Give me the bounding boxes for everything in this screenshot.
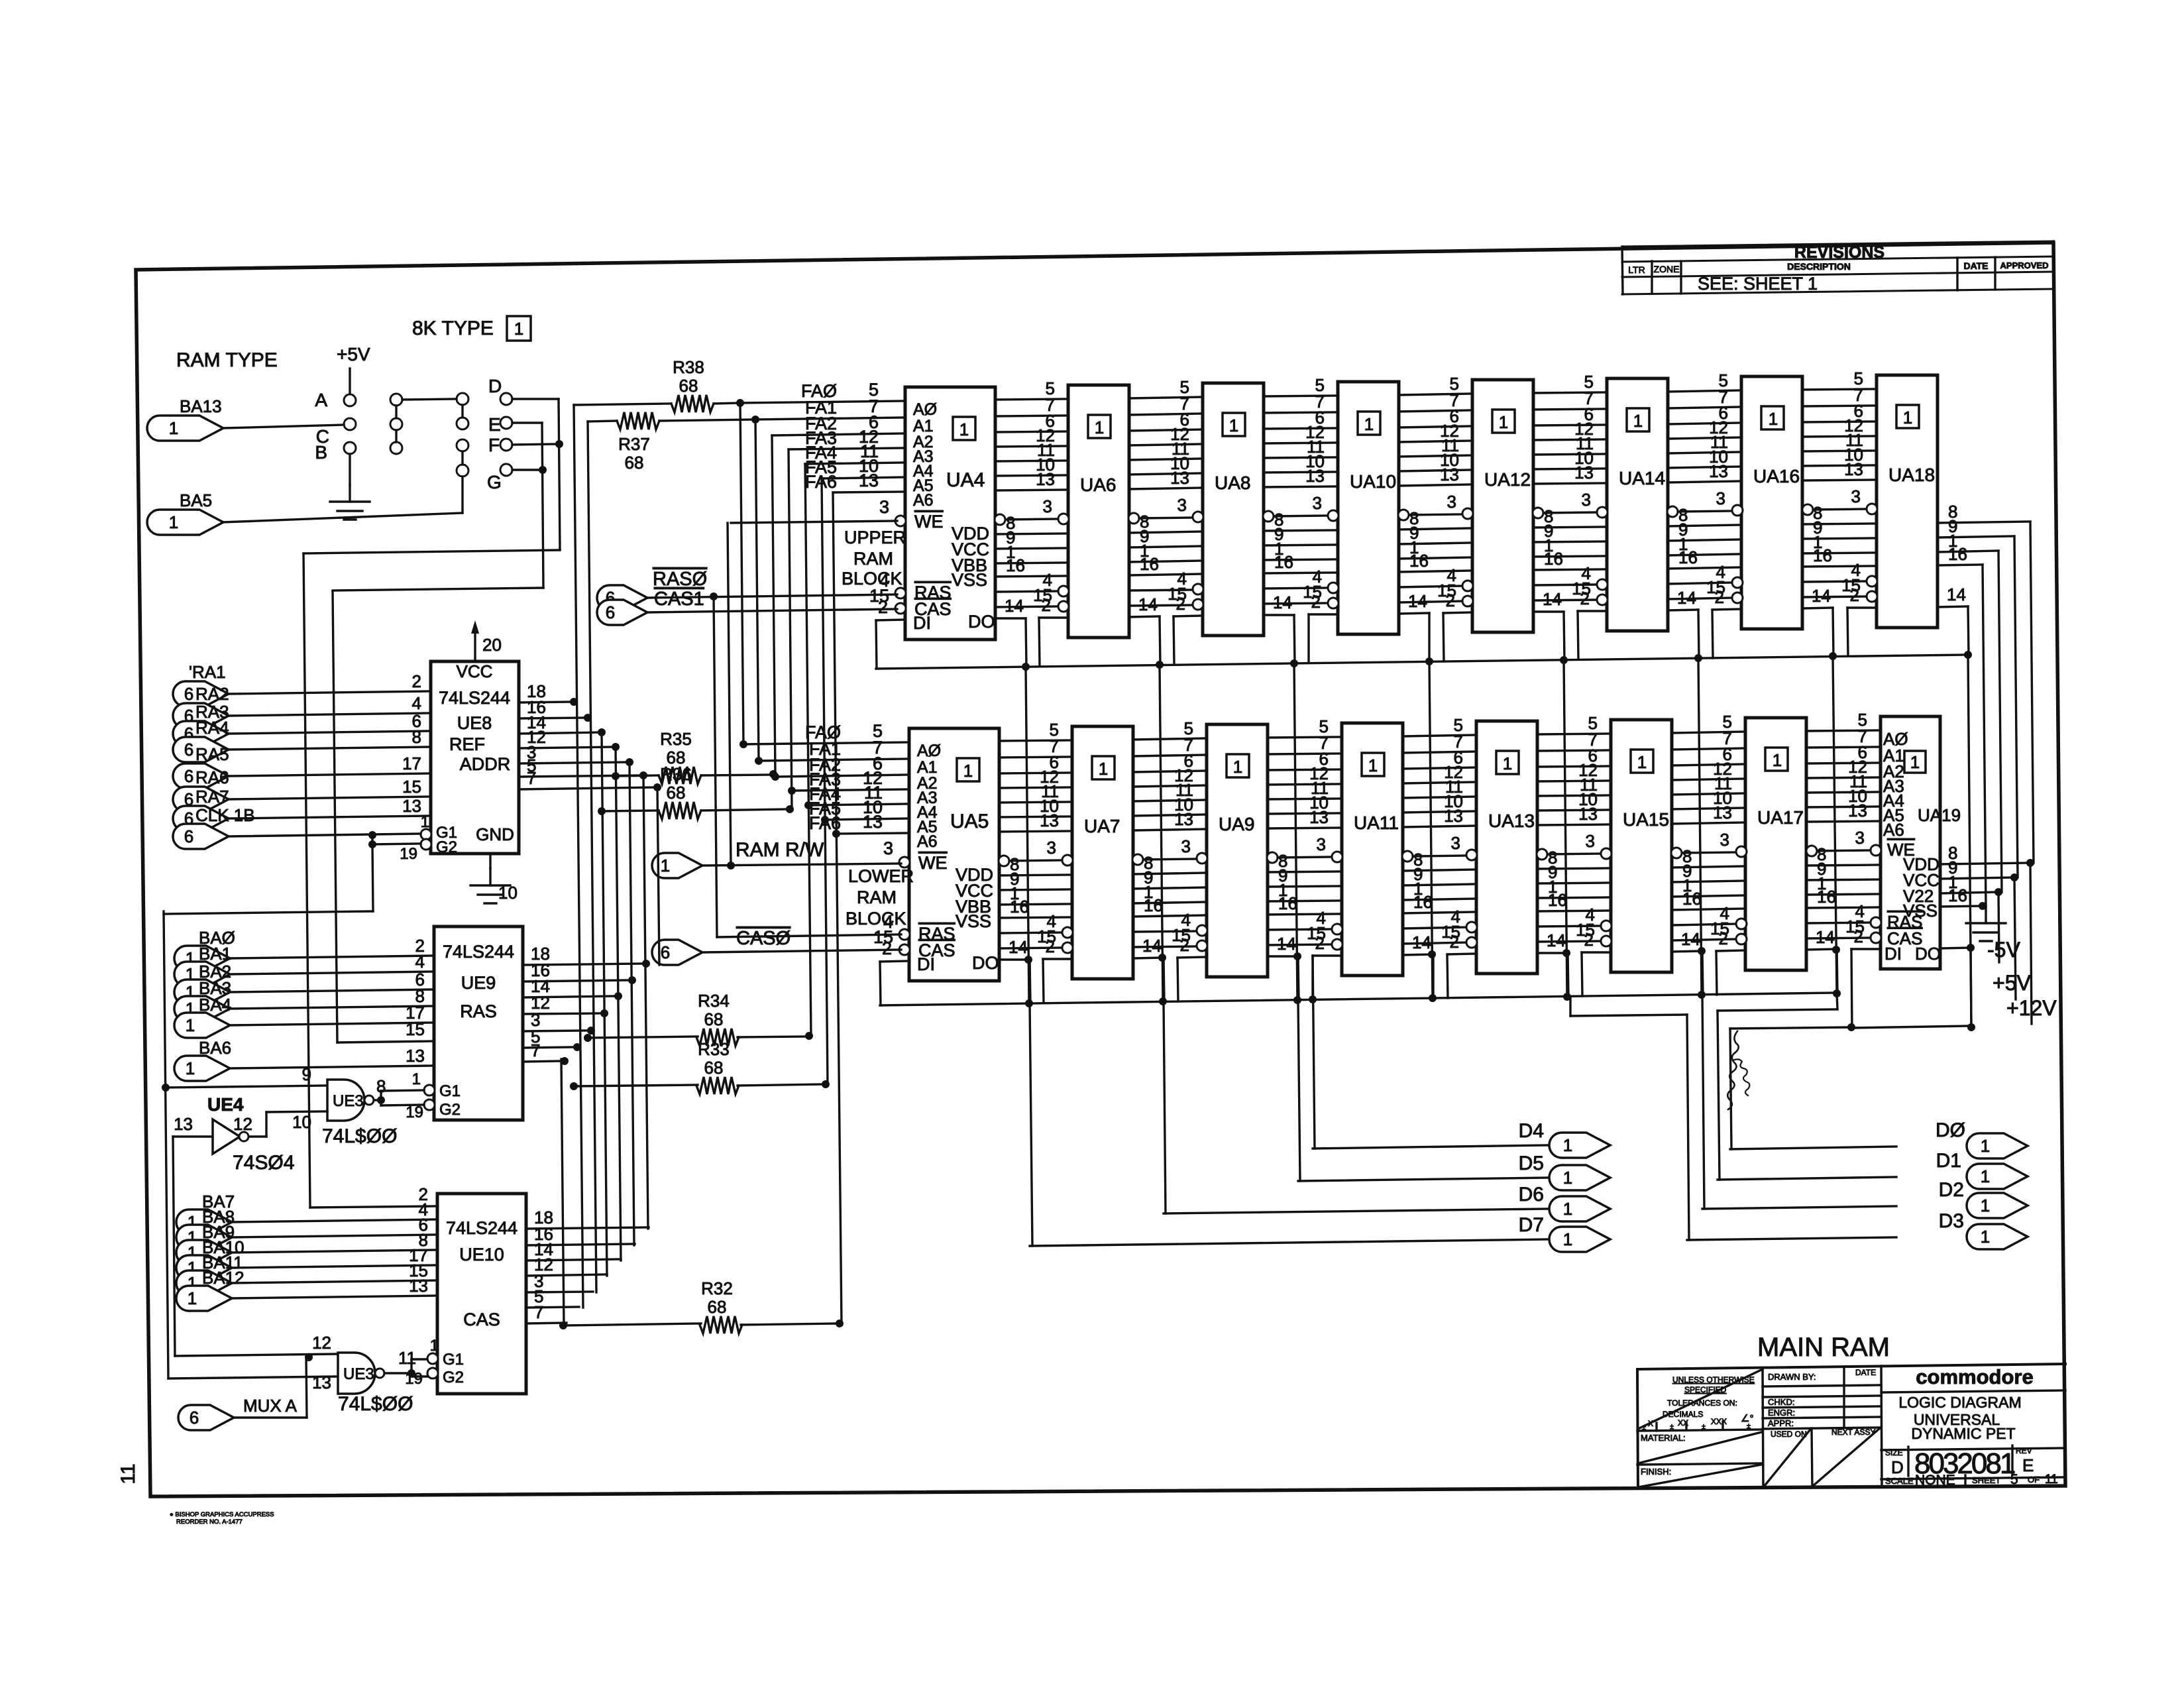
svg-text:2: 2: [1176, 594, 1185, 614]
svg-text:±: ±: [1702, 1423, 1706, 1431]
DO wire UA13: [1537, 952, 1568, 954]
svg-text:13: 13: [1709, 461, 1728, 481]
svg-text:8: 8: [412, 727, 421, 747]
svg-text:2: 2: [882, 938, 892, 958]
RAM chip UA5: [909, 728, 999, 981]
svg-text:G: G: [487, 472, 502, 492]
svg-text:UA14: UA14: [1619, 468, 1665, 488]
svg-text:±: ±: [1642, 1424, 1646, 1432]
jumper column 2 pads: [390, 394, 402, 406]
wires UA13-UA15 address/power rows: [1537, 734, 1611, 734]
svg-text:UA9: UA9: [1219, 814, 1254, 834]
svg-text:DRAWN BY:: DRAWN BY:: [1768, 1372, 1816, 1382]
wires UA11-UA13 address/power rows: [1403, 735, 1476, 736]
RAM chip UA18: [1877, 375, 1938, 628]
svg-text:BA1: BA1: [199, 944, 231, 964]
svg-text:7: 7: [527, 768, 536, 788]
svg-text:NEXT ASSY: NEXT ASSY: [1831, 1428, 1875, 1437]
DI loop wire UA4: [876, 620, 905, 620]
svg-text:CASØ: CASØ: [736, 928, 791, 949]
svg-text:BA4: BA4: [199, 995, 231, 1015]
svg-text:CAS: CAS: [463, 1310, 500, 1329]
DO wire UA15: [1672, 951, 1702, 952]
flag RA2: [173, 703, 229, 728]
svg-text:16: 16: [1413, 892, 1433, 912]
svg-text:1: 1: [1903, 408, 1912, 427]
svg-text:A6: A6: [1883, 820, 1904, 840]
svg-text:±: ±: [1747, 1422, 1751, 1430]
buffer interconnect verticals: [574, 405, 583, 1308]
svg-text:68: 68: [667, 783, 686, 803]
svg-text:UE8: UE8: [457, 713, 492, 733]
svg-text:13: 13: [409, 1276, 428, 1296]
svg-text:1: 1: [1099, 759, 1108, 779]
svg-text:BA13: BA13: [180, 396, 222, 416]
flag BA12: [176, 1286, 232, 1311]
flag BA3: [174, 996, 230, 1021]
D3 route from column UA12/UA13: [1569, 997, 1571, 1016]
data column verticals upper->lower: [1026, 667, 1029, 1003]
svg-text:D7: D7: [1519, 1214, 1544, 1236]
RAM chip UA4: [905, 387, 995, 640]
svg-text:'RA1: 'RA1: [189, 662, 226, 682]
svg-text:1: 1: [1769, 409, 1778, 429]
NAND gate UE3b (74LS00) at UE10 enables: [338, 1353, 375, 1394]
svg-text:2: 2: [1580, 589, 1590, 608]
D5 line from column UA8/UA9: [1298, 1000, 1300, 1181]
svg-text:UA7: UA7: [1084, 816, 1120, 836]
svg-text:2: 2: [1180, 935, 1189, 955]
svg-text:16: 16: [1548, 890, 1567, 910]
DI loop wire UA7: [1043, 958, 1072, 960]
svg-text:±: ±: [1670, 1423, 1674, 1431]
svg-text:R35: R35: [660, 729, 692, 749]
svg-text:DO: DO: [968, 612, 995, 632]
svg-text:REF: REF: [449, 734, 485, 754]
flag D6: [1549, 1196, 1610, 1221]
UE9 G1 G2 bubbles: [424, 1085, 435, 1096]
svg-text:SIZE: SIZE: [1885, 1448, 1903, 1457]
svg-text:A: A: [315, 390, 327, 410]
svg-text:14: 14: [1408, 591, 1427, 611]
flag RA6: [173, 787, 229, 812]
svg-text:UA18: UA18: [1888, 465, 1935, 485]
svg-text:1: 1: [959, 420, 969, 439]
RAM chip UA12: [1472, 380, 1533, 632]
UE8 G1 G2 bubbles: [421, 829, 431, 840]
svg-text:13: 13: [1444, 806, 1463, 826]
jumper pad C: [344, 418, 356, 430]
flag D1: [1967, 1164, 2028, 1189]
svg-text:R33: R33: [698, 1039, 730, 1059]
svg-text:+5V: +5V: [337, 344, 370, 365]
lower power row wires UA19 to power verticals: [1940, 863, 2030, 864]
svg-text:6: 6: [184, 684, 193, 704]
svg-text:16: 16: [1409, 551, 1429, 571]
svg-text:G1: G1: [443, 1351, 464, 1369]
svg-text:14: 14: [1142, 936, 1162, 956]
flag D2: [1967, 1193, 2028, 1218]
svg-text:WE: WE: [914, 512, 944, 532]
D2 route from column UA14/UA15: [1702, 995, 1704, 1209]
svg-text:13: 13: [1574, 463, 1594, 482]
wire jumper D/F net to UE10 pin 2: [303, 553, 310, 1208]
flag BA5 wire to jumper column 3 pad G: [147, 510, 223, 535]
wires UA9-UA11 address/power rows: [1268, 737, 1342, 738]
svg-text:1: 1: [1981, 1196, 1990, 1215]
svg-text:UA6: UA6: [1080, 475, 1116, 495]
svg-text:4: 4: [415, 952, 425, 972]
svg-text:F: F: [488, 435, 500, 455]
svg-text:commodore: commodore: [1916, 1365, 2033, 1388]
svg-text:1: 1: [1633, 411, 1643, 431]
RAM chip UA9: [1207, 724, 1268, 977]
svg-text:6: 6: [184, 766, 193, 786]
svg-text:8K TYPE: 8K TYPE: [412, 317, 494, 339]
flag RA4: [173, 737, 229, 762]
DI loop wire UA8: [1174, 616, 1203, 616]
RAM chip UA6: [1068, 385, 1129, 638]
RAM chip UA7: [1072, 726, 1133, 979]
DO wire UA6: [1129, 616, 1160, 617]
svg-text:LOWER: LOWER: [848, 866, 914, 886]
DO wire UA10: [1399, 613, 1429, 614]
svg-text:13: 13: [1848, 801, 1867, 820]
svg-text:UA12: UA12: [1484, 469, 1531, 490]
svg-text:UA11: UA11: [1354, 813, 1399, 833]
flag BA6: [174, 1056, 230, 1081]
svg-text:2: 2: [1046, 936, 1055, 956]
svg-text:2: 2: [1311, 592, 1321, 612]
svg-text:14: 14: [1547, 930, 1566, 950]
branch to NAND UE3a pin 9: [162, 1084, 170, 1092]
svg-text:BA12: BA12: [202, 1268, 245, 1288]
svg-text:AØ: AØ: [913, 400, 937, 419]
inverter UE4 74S04: [213, 1119, 240, 1154]
svg-text:1: 1: [963, 761, 973, 781]
svg-text:13: 13: [863, 812, 883, 832]
svg-text:6: 6: [661, 942, 670, 962]
svg-text:DI: DI: [917, 954, 935, 974]
flag BA0: [174, 946, 230, 971]
svg-text:13: 13: [174, 1114, 193, 1134]
wires UA8-UA10 address/power rows: [1264, 396, 1338, 396]
DO wire UA16: [1802, 608, 1833, 608]
svg-text:ADDR: ADDR: [460, 754, 511, 774]
svg-text:13: 13: [1309, 807, 1329, 827]
svg-text:5: 5: [2010, 1472, 2018, 1487]
flag RA7: [173, 806, 229, 831]
svg-text:14: 14: [1681, 929, 1700, 949]
jumper G wire joining E net: [512, 469, 543, 471]
svg-text:3: 3: [1043, 496, 1052, 516]
flag BA13 wire to pad C: [147, 416, 223, 441]
svg-text:VSS: VSS: [952, 570, 987, 590]
svg-text:RA7: RA7: [195, 787, 229, 807]
revisions table: [1622, 241, 2053, 247]
svg-text:RA4: RA4: [195, 718, 229, 738]
svg-text:68: 68: [704, 1009, 724, 1029]
svg-text:14: 14: [1138, 594, 1158, 614]
svg-text:2: 2: [412, 671, 421, 691]
wires UA5-UA7 address/power rows: [999, 740, 1072, 741]
svg-text:G2: G2: [436, 838, 457, 856]
svg-text:D6: D6: [1519, 1184, 1544, 1206]
svg-text:UE3: UE3: [333, 1092, 364, 1110]
loop bottom wire UA19: [1851, 1026, 1971, 1028]
wires UA10-UA12 address/power rows: [1399, 394, 1472, 395]
type box 1: [507, 316, 531, 341]
svg-text:10: 10: [292, 1112, 311, 1132]
RAM chip UA14: [1607, 378, 1668, 631]
svg-text:2: 2: [1446, 590, 1455, 610]
svg-text:-5V: -5V: [1987, 938, 2020, 962]
flag CLK 1B wire to UE8 G1: [173, 824, 229, 849]
svg-text:11: 11: [398, 1348, 416, 1368]
svg-text:3: 3: [1181, 836, 1191, 856]
svg-text:6: 6: [190, 1408, 199, 1428]
svg-text:R34: R34: [698, 991, 730, 1011]
svg-text:XXX: XXX: [1711, 1417, 1727, 1426]
svg-text:16: 16: [1948, 544, 1967, 564]
svg-text:DATE: DATE: [1855, 1368, 1876, 1377]
svg-text:RAM R/W: RAM R/W: [736, 839, 824, 861]
svg-text:14: 14: [1005, 596, 1024, 616]
DO wire UA18: [1938, 606, 1968, 607]
svg-text:UA19: UA19: [1918, 805, 1961, 825]
svg-text:BA6: BA6: [199, 1038, 231, 1058]
ground symbol at VSS: [1985, 906, 1987, 923]
DI loop wire UA17: [1716, 950, 1745, 951]
svg-text:RA6: RA6: [195, 767, 229, 787]
svg-text:1: 1: [1499, 412, 1508, 432]
svg-text:UE9: UE9: [461, 973, 496, 993]
svg-text:74LS244: 74LS244: [443, 942, 514, 962]
svg-text:DI: DI: [1884, 944, 1902, 964]
svg-text:UA8: UA8: [1215, 473, 1250, 493]
jumper pad A: [344, 394, 356, 406]
resistor R35 68: [616, 775, 659, 776]
svg-text:16: 16: [1278, 893, 1297, 913]
svg-text:D5: D5: [1519, 1152, 1544, 1174]
UE8 pin 10 GND wire and ground: [489, 854, 491, 868]
svg-text:D4: D4: [1519, 1120, 1544, 1142]
svg-text:2: 2: [1584, 930, 1594, 950]
svg-text:16: 16: [1813, 545, 1832, 565]
DO wire UA11: [1403, 954, 1433, 955]
svg-text:DATE: DATE: [1963, 260, 1988, 271]
FA bus verticals FA0-FA6: [740, 403, 743, 744]
flag MUX A: [178, 1405, 234, 1430]
svg-text:11: 11: [2045, 1473, 2058, 1487]
flag RA1: [173, 681, 229, 706]
svg-text:DO: DO: [972, 953, 999, 973]
svg-text:13: 13: [1036, 469, 1055, 489]
svg-text:LOGIC DIAGRAM: LOGIC DIAGRAM: [1898, 1394, 2021, 1411]
svg-text:VSS: VSS: [955, 911, 991, 931]
border frame: [136, 243, 2065, 1496]
svg-text:3: 3: [1720, 830, 1729, 850]
svg-text:20: 20: [482, 635, 502, 655]
svg-text:RA2: RA2: [195, 684, 229, 704]
svg-text:16: 16: [1140, 554, 1159, 574]
svg-text:13: 13: [1578, 804, 1598, 824]
RAM chip UA10: [1338, 382, 1399, 634]
title block outer box: [1637, 1364, 2065, 1369]
flag D3: [1967, 1224, 2028, 1249]
svg-text:1: 1: [1910, 752, 1920, 772]
DO wire UA9: [1268, 955, 1298, 957]
svg-text:13: 13: [1440, 465, 1459, 484]
WE vertical from RAM R/W up to upper WE row: [728, 523, 731, 866]
DO wire UA7: [1133, 958, 1164, 958]
svg-text:4: 4: [412, 693, 421, 713]
svg-text:2: 2: [1854, 927, 1863, 946]
svg-text:3: 3: [1313, 493, 1322, 513]
svg-text:3: 3: [1716, 488, 1725, 508]
svg-text:6: 6: [606, 602, 615, 622]
svg-text:16: 16: [1682, 889, 1702, 909]
jumper pads D E F G: [500, 393, 512, 405]
flag BA8: [176, 1225, 232, 1250]
wires UA7-UA9 address/power rows: [1133, 738, 1207, 740]
power rail ends and labels -5V +5V +12V: [1998, 892, 1999, 962]
svg-text:1: 1: [1095, 418, 1104, 437]
svg-text:BA5: BA5: [180, 490, 212, 510]
DI loop wire UA16: [1712, 609, 1741, 610]
svg-text:D2: D2: [1939, 1179, 1964, 1201]
svg-text:3: 3: [1047, 838, 1056, 858]
svg-text:1: 1: [412, 1070, 421, 1088]
resistor R37 68: [588, 421, 617, 421]
pencil scribble artifact: [1727, 1031, 1739, 1109]
svg-text:1: 1: [1229, 416, 1238, 435]
svg-text:14: 14: [1277, 934, 1296, 954]
svg-text:14: 14: [1273, 592, 1292, 612]
svg-text:DO: DO: [1915, 944, 1941, 964]
gate chain vertical to NAND UE3b: [164, 911, 168, 1378]
svg-text:1: 1: [1368, 756, 1378, 775]
UE10 G1 G2 bubbles: [427, 1353, 438, 1364]
svg-text:BLOCK: BLOCK: [846, 909, 906, 928]
svg-text:A6: A6: [913, 491, 934, 510]
DI loop wire UA10: [1309, 613, 1338, 615]
svg-text:G2: G2: [439, 1101, 461, 1119]
svg-text:2: 2: [878, 597, 888, 617]
svg-text:16: 16: [1274, 552, 1293, 572]
svg-text:+5V: +5V: [1993, 971, 2031, 995]
svg-text:AØ: AØ: [917, 742, 941, 760]
flag BA9: [176, 1240, 232, 1265]
wire between jumper columns 2-3: [402, 399, 457, 400]
svg-text:12: 12: [312, 1333, 331, 1353]
svg-text:D: D: [1891, 1457, 1904, 1477]
svg-text:1: 1: [186, 1015, 195, 1035]
resistor R34 68: [588, 1037, 698, 1038]
DI loop wire UA11: [1313, 954, 1342, 956]
DI loop wire UA13: [1447, 954, 1476, 954]
resistor R38 68: [574, 404, 671, 405]
D4 line from UA11 DI side: [1313, 956, 1315, 1149]
svg-text:7: 7: [534, 1302, 543, 1322]
svg-text:13: 13: [1713, 803, 1732, 822]
flag BA7: [176, 1209, 232, 1235]
DI loop wire UA5: [880, 961, 909, 962]
jumper column 3 pads: [457, 393, 468, 405]
svg-text:14: 14: [1947, 585, 1966, 604]
DI loop wire UA6: [1039, 616, 1068, 618]
svg-text:2: 2: [1315, 933, 1325, 953]
svg-text:WE: WE: [918, 853, 948, 873]
DI loop wire UA9: [1177, 957, 1207, 958]
D6 line from column UA6/UA7: [1164, 1001, 1166, 1213]
svg-text:TOLERANCES ON:: TOLERANCES ON:: [1667, 1398, 1737, 1408]
flag BA2: [174, 980, 230, 1005]
svg-text:G1: G1: [439, 1082, 461, 1100]
flag BA4: [174, 1013, 230, 1038]
svg-text:16: 16: [1006, 555, 1025, 575]
svg-text:RAM: RAM: [853, 549, 893, 569]
jumper D wire to right then down (D/F net): [512, 398, 559, 400]
svg-text:16: 16: [1948, 885, 1967, 905]
resistor R33 68: [574, 1085, 698, 1086]
svg-text:13: 13: [402, 796, 421, 816]
svg-text:6: 6: [184, 826, 193, 846]
svg-text:13: 13: [1170, 468, 1189, 488]
svg-text:13: 13: [1040, 811, 1059, 830]
svg-text:UA16: UA16: [1753, 466, 1800, 486]
RAM chip UA13: [1476, 721, 1537, 974]
svg-text:12: 12: [233, 1114, 252, 1134]
RAM chip UA15: [1611, 720, 1672, 972]
svg-text:RA5: RA5: [195, 744, 229, 764]
svg-text:19: 19: [400, 845, 417, 863]
svg-text:68: 68: [679, 376, 698, 396]
flag BA1: [174, 962, 230, 987]
svg-text:1: 1: [661, 856, 670, 875]
svg-text:SEE: SHEET 1: SEE: SHEET 1: [1698, 274, 1818, 294]
svg-text:UA10: UA10: [1350, 471, 1396, 492]
svg-text:D3: D3: [1939, 1210, 1964, 1232]
svg-text:13: 13: [312, 1373, 331, 1392]
svg-text:2: 2: [1715, 587, 1724, 607]
DI loop wire UA15: [1582, 951, 1611, 953]
svg-text:E: E: [2022, 1455, 2034, 1475]
svg-text:2: 2: [1719, 928, 1728, 948]
svg-text:17: 17: [402, 754, 421, 773]
svg-text:2: 2: [1042, 595, 1051, 615]
svg-text:UA17: UA17: [1757, 807, 1804, 828]
svg-text:1: 1: [1364, 414, 1374, 434]
RAM chip UA19: [1881, 716, 1940, 969]
flag D5: [1549, 1165, 1610, 1190]
jumper pad B: [344, 442, 356, 454]
svg-text:3: 3: [879, 497, 889, 517]
svg-text:G2: G2: [443, 1369, 464, 1386]
svg-text:RASØ: RASØ: [653, 569, 707, 590]
svg-text:16: 16: [1144, 895, 1163, 915]
svg-text:16: 16: [1010, 897, 1029, 917]
flag RAS0 with wire to upper RAS row: [597, 585, 647, 610]
svg-text:1: 1: [188, 1288, 197, 1308]
svg-text:3: 3: [1451, 833, 1460, 853]
wire jumper E/G net to UE9 pin 15: [333, 591, 337, 1042]
svg-text:3: 3: [1586, 831, 1595, 851]
svg-text:NONE: NONE: [1915, 1473, 1955, 1488]
svg-text:APPROVED: APPROVED: [2000, 260, 2049, 270]
svg-text:UE3: UE3: [343, 1365, 374, 1383]
svg-text:SHEET: SHEET: [1972, 1475, 2000, 1485]
